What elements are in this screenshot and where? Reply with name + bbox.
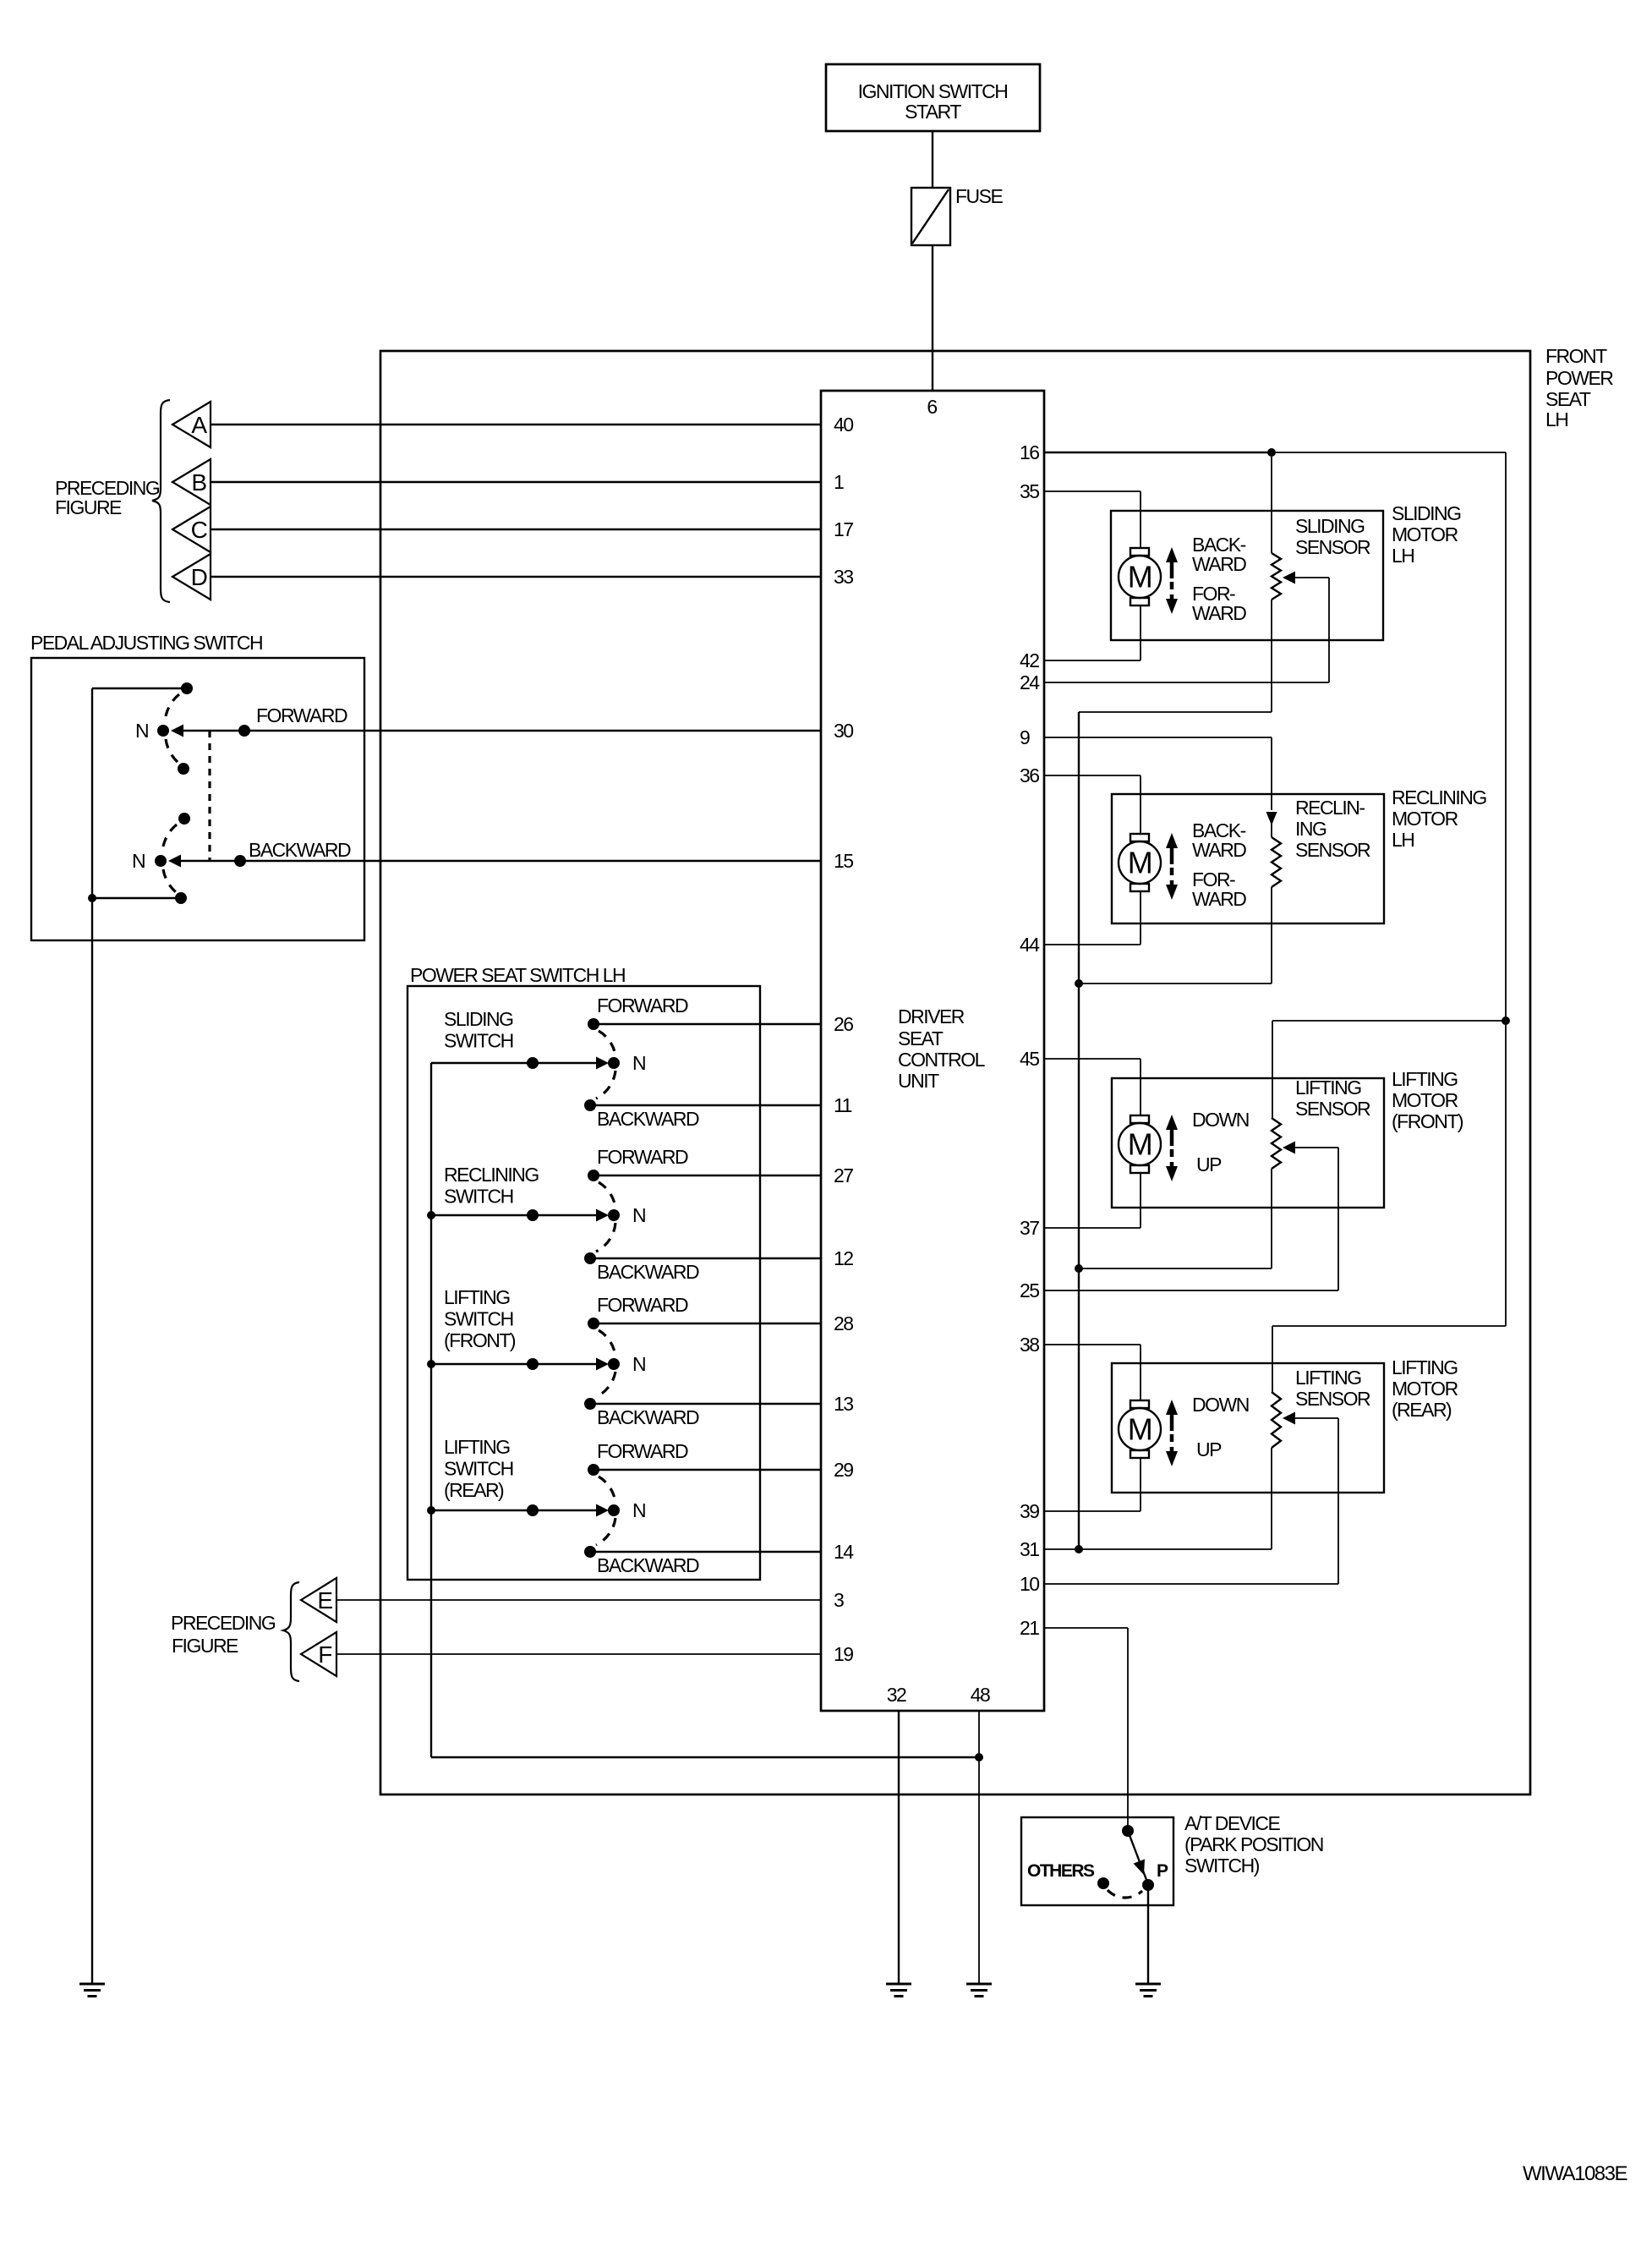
connector C triangle	[172, 507, 211, 552]
svg-text:PRECEDING: PRECEDING	[171, 1612, 276, 1634]
ground (pin 32)	[886, 1983, 911, 1986]
svg-text:WARD: WARD	[1192, 888, 1246, 910]
svg-text:FORWARD: FORWARD	[256, 704, 347, 726]
sensor resistor (reclining motor LH)	[1272, 837, 1281, 887]
svg-text:(REAR): (REAR)	[444, 1479, 504, 1501]
sensor resistor (lifting motor (front))	[1272, 1118, 1281, 1169]
svg-text:30: 30	[834, 720, 853, 742]
sensor ground bus	[1078, 712, 1080, 1549]
svg-text:P: P	[1157, 1861, 1168, 1881]
wire pin 48 to ground	[978, 1711, 980, 1984]
A/T device (park position switch) box	[1021, 1817, 1173, 1905]
svg-text:SWITCH: SWITCH	[444, 1458, 513, 1480]
svg-text:WIWA1083E: WIWA1083E	[1523, 2162, 1627, 2185]
svg-text:N: N	[132, 850, 145, 872]
svg-text:N: N	[632, 1204, 645, 1226]
pedal forward arrow	[171, 725, 183, 737]
svg-text:36: 36	[1020, 764, 1039, 786]
svg-text:A: A	[191, 412, 207, 438]
svg-text:START: START	[905, 101, 961, 123]
wire C to control unit	[211, 529, 821, 530]
reclining switch N contact	[427, 1211, 435, 1219]
ground (pin 48)	[966, 1983, 992, 1986]
connector A triangle	[172, 402, 211, 447]
svg-text:44: 44	[1020, 934, 1040, 956]
svg-text:11: 11	[834, 1094, 852, 1116]
svg-text:FORWARD: FORWARD	[597, 1440, 688, 1462]
svg-text:SENSOR: SENSOR	[1295, 1098, 1370, 1120]
svg-text:LH: LH	[1392, 829, 1414, 851]
svg-text:BACKWARD: BACKWARD	[249, 839, 351, 861]
svg-text:IGNITION SWITCH: IGNITION SWITCH	[858, 80, 1008, 102]
svg-text:31: 31	[1020, 1538, 1039, 1560]
direction arrows (sliding motor LH)	[1170, 562, 1174, 578]
wire fuse to pin 6	[932, 245, 933, 391]
svg-text:SWITCH: SWITCH	[444, 1308, 513, 1330]
svg-text:DOWN: DOWN	[1192, 1394, 1249, 1416]
svg-text:BACKWARD: BACKWARD	[597, 1406, 699, 1428]
sliding sensor stubs	[1271, 457, 1272, 553]
svg-text:37: 37	[1020, 1217, 1039, 1239]
svg-text:(FRONT): (FRONT)	[444, 1329, 516, 1351]
reclining motor LH box	[1112, 794, 1384, 923]
lifting front sensor wiper to pin 25	[1283, 1142, 1295, 1154]
svg-text:40: 40	[834, 414, 853, 436]
svg-text:LIFTING: LIFTING	[1392, 1356, 1458, 1378]
reclining switch backward contact and wire	[590, 1257, 821, 1259]
lift_f switch forward contact and wire	[594, 1323, 821, 1324]
fuse	[911, 188, 950, 245]
svg-text:39: 39	[1020, 1500, 1039, 1522]
wire pedal forward to pin 30	[180, 730, 821, 731]
connector B triangle	[172, 459, 211, 505]
motor M (lifting motor (rear))	[1130, 1400, 1149, 1408]
park switch OTHERS contact	[1097, 1877, 1109, 1889]
lifting motor (rear) box	[1112, 1363, 1384, 1493]
svg-text:FIGURE: FIGURE	[55, 496, 122, 518]
pedal adjusting switch box	[31, 658, 364, 940]
svg-text:29: 29	[834, 1459, 853, 1481]
svg-text:14: 14	[834, 1541, 854, 1563]
svg-text:UP: UP	[1196, 1438, 1222, 1460]
svg-text:9: 9	[1020, 726, 1030, 748]
svg-text:SLIDING: SLIDING	[444, 1008, 513, 1030]
junction supply at lifting front	[1502, 1016, 1510, 1025]
motor M (sliding motor LH)	[1130, 548, 1149, 556]
connector D triangle	[172, 554, 211, 600]
svg-text:26: 26	[834, 1013, 853, 1035]
motor M (reclining motor LH)	[1130, 834, 1149, 841]
park switch P contact	[1142, 1879, 1154, 1891]
svg-text:M: M	[1128, 1127, 1152, 1162]
svg-text:SLIDING: SLIDING	[1295, 515, 1365, 537]
lift_r switch backward contact and wire	[590, 1551, 821, 1553]
front power seat LH outer box	[380, 351, 1530, 1794]
svg-text:17: 17	[834, 518, 853, 540]
wire feed pin to reclining motor LH	[1044, 775, 1141, 776]
svg-text:SENSOR: SENSOR	[1295, 1388, 1370, 1410]
svg-text:FRONT: FRONT	[1545, 345, 1607, 367]
svg-text:SENSOR: SENSOR	[1295, 536, 1370, 558]
wire lifting motor (rear) return pin	[1140, 1458, 1141, 1511]
svg-text:SENSOR: SENSOR	[1295, 839, 1370, 861]
svg-text:38: 38	[1020, 1334, 1039, 1356]
pedal switch lower (backward) contacts	[178, 813, 190, 825]
svg-text:SWITCH: SWITCH	[444, 1030, 513, 1052]
svg-text:21: 21	[1020, 1617, 1039, 1639]
svg-text:LIFTING: LIFTING	[1392, 1068, 1458, 1090]
lift_r switch N contact	[427, 1506, 435, 1515]
svg-text:N: N	[632, 1353, 645, 1375]
svg-text:MOTOR: MOTOR	[1392, 1089, 1458, 1111]
reclining switch forward contact and wire	[594, 1175, 821, 1176]
svg-text:CONTROL: CONTROL	[898, 1049, 986, 1071]
ground (pedal adjusting switch)	[79, 1983, 105, 1986]
svg-text:SWITCH): SWITCH)	[1184, 1855, 1260, 1877]
pedal switch common wire	[91, 688, 93, 1984]
sliding switch forward contact and wire	[594, 1023, 821, 1025]
svg-text:RECLIN-: RECLIN-	[1295, 797, 1365, 819]
wire D to control unit	[211, 576, 821, 578]
svg-text:1: 1	[834, 471, 844, 493]
svg-text:DOWN: DOWN	[1192, 1109, 1249, 1131]
direction arrows (lifting motor (rear))	[1170, 1414, 1174, 1431]
junction bus / pin 31	[1075, 1545, 1083, 1553]
sensor resistor (sliding motor LH)	[1272, 553, 1281, 600]
pedal common junction	[88, 894, 96, 902]
wire F to pin 19	[336, 1653, 821, 1655]
svg-text:POWER: POWER	[1545, 367, 1613, 389]
lifting motor (front) box	[1112, 1078, 1384, 1208]
svg-text:WARD: WARD	[1192, 602, 1246, 624]
park switch arm	[1128, 1831, 1148, 1884]
svg-text:MOTOR: MOTOR	[1392, 523, 1458, 545]
svg-text:N: N	[632, 1499, 645, 1521]
svg-text:12: 12	[834, 1247, 853, 1269]
svg-text:48: 48	[971, 1684, 990, 1706]
svg-text:C: C	[191, 517, 208, 543]
connector F triangle	[301, 1632, 336, 1676]
svg-text:M: M	[1128, 560, 1152, 594]
svg-text:BACKWARD: BACKWARD	[597, 1554, 699, 1576]
svg-text:RECLINING: RECLINING	[444, 1164, 539, 1186]
park switch common contact	[1122, 1825, 1134, 1837]
power seat switch box	[408, 986, 760, 1580]
svg-text:F: F	[318, 1641, 331, 1668]
svg-text:M: M	[1128, 1412, 1152, 1447]
svg-text:6: 6	[927, 396, 937, 418]
svg-text:M: M	[1128, 846, 1152, 880]
svg-text:WARD: WARD	[1192, 553, 1246, 575]
svg-text:PEDAL ADJUSTING SWITCH: PEDAL ADJUSTING SWITCH	[30, 632, 262, 654]
svg-text:ING: ING	[1295, 818, 1327, 840]
wire E to pin 3	[336, 1599, 821, 1601]
wire pedal backward to pin 15	[178, 860, 821, 862]
svg-text:42: 42	[1020, 649, 1039, 671]
brace for E-F connectors	[283, 1582, 299, 1681]
wire ignition to fuse	[932, 131, 933, 188]
svg-text:45: 45	[1020, 1048, 1039, 1070]
svg-text:FORWARD: FORWARD	[597, 994, 688, 1016]
pedal backward arrow	[168, 855, 181, 868]
svg-text:24: 24	[1020, 671, 1040, 693]
direction arrows (reclining motor LH)	[1170, 847, 1174, 864]
svg-text:FORWARD: FORWARD	[597, 1294, 688, 1316]
svg-text:SEAT: SEAT	[898, 1027, 944, 1049]
svg-text:27: 27	[834, 1164, 853, 1186]
svg-text:35: 35	[1020, 480, 1039, 502]
svg-text:16: 16	[1020, 441, 1039, 463]
svg-text:DRIVER: DRIVER	[898, 1005, 965, 1027]
svg-text:OTHERS: OTHERS	[1027, 1861, 1095, 1881]
ground (A/T device)	[1135, 1983, 1161, 1986]
lifting rear sensor wiper to pin 10	[1283, 1412, 1295, 1425]
lifting rear sensor stubs	[1272, 1326, 1273, 1392]
motor M (lifting motor (front))	[1130, 1115, 1149, 1123]
wire pin 16 to sensors supply	[1044, 452, 1272, 453]
svg-text:LH: LH	[1392, 545, 1414, 567]
junction psw bus / pin48 line	[975, 1753, 983, 1762]
svg-text:FIGURE: FIGURE	[172, 1635, 238, 1657]
svg-text:BACKWARD: BACKWARD	[597, 1261, 699, 1283]
svg-text:N: N	[632, 1052, 645, 1074]
svg-text:B: B	[191, 469, 206, 496]
svg-text:(PARK POSITION: (PARK POSITION	[1184, 1833, 1323, 1855]
svg-text:RECLINING: RECLINING	[1392, 786, 1486, 808]
sensor resistor (lifting motor (rear))	[1272, 1392, 1281, 1448]
wire pin 31 sensor ground	[1044, 1548, 1272, 1550]
sliding motor LH box	[1111, 511, 1383, 640]
svg-text:MOTOR: MOTOR	[1392, 1378, 1458, 1400]
pedal interlock dashed link	[208, 731, 211, 861]
sliding switch backward contact and wire	[590, 1104, 821, 1106]
wire pin 9 to reclining sensor wiper	[1044, 737, 1272, 738]
wire pin 21 to park position switch	[1044, 1627, 1128, 1629]
svg-text:SWITCH: SWITCH	[444, 1186, 513, 1208]
lift_r switch forward contact and wire	[594, 1469, 821, 1471]
connector E triangle	[301, 1578, 336, 1622]
wire reclining motor LH return pin	[1140, 891, 1141, 945]
svg-text:(FRONT): (FRONT)	[1392, 1110, 1463, 1132]
svg-text:15: 15	[834, 850, 853, 872]
svg-text:SLIDING: SLIDING	[1392, 502, 1461, 524]
wire feed pin to sliding motor LH	[1044, 490, 1141, 492]
lifting front sensor stubs	[1272, 1021, 1273, 1118]
power seat switch common bus	[430, 1063, 432, 1757]
sliding sensor wiper to pin 24	[1283, 572, 1295, 584]
wire lifting motor (front) return pin	[1140, 1173, 1141, 1228]
driver seat control unit U1 box	[821, 391, 1044, 1711]
svg-text:LH: LH	[1545, 408, 1567, 430]
svg-text:WARD: WARD	[1192, 839, 1246, 861]
wire feed pin to lifting motor (front)	[1044, 1058, 1141, 1060]
svg-text:D: D	[191, 564, 207, 590]
pedal switch upper (forward) contacts	[181, 682, 193, 694]
svg-text:25: 25	[1020, 1279, 1039, 1301]
svg-text:28: 28	[834, 1312, 853, 1334]
svg-text:LIFTING: LIFTING	[1295, 1077, 1361, 1099]
svg-text:MOTOR: MOTOR	[1392, 808, 1458, 830]
svg-text:3: 3	[834, 1589, 844, 1611]
svg-text:LIFTING: LIFTING	[1295, 1367, 1361, 1389]
svg-text:A/T DEVICE: A/T DEVICE	[1184, 1812, 1281, 1834]
wire P contact to ground	[1147, 1885, 1149, 1984]
reclining sensor bottom stub	[1271, 887, 1272, 984]
svg-text:UNIT: UNIT	[898, 1070, 939, 1092]
lift_f switch backward contact and wire	[590, 1403, 821, 1405]
svg-text:LIFTING: LIFTING	[444, 1286, 510, 1308]
svg-text:FORWARD: FORWARD	[597, 1146, 688, 1168]
svg-text:32: 32	[887, 1684, 906, 1706]
wire sliding motor LH return pin	[1140, 605, 1141, 660]
svg-text:33: 33	[834, 566, 853, 588]
brace for A-D connectors	[152, 400, 170, 602]
junction bus / lifting front sensor	[1075, 1264, 1083, 1273]
direction arrows (lifting motor (front))	[1170, 1129, 1174, 1146]
sliding switch N contact	[431, 1062, 599, 1064]
svg-text:UP: UP	[1196, 1153, 1222, 1175]
wire feed pin to lifting motor (rear)	[1044, 1344, 1141, 1345]
ignition switch box	[826, 64, 1040, 131]
svg-text:SEAT: SEAT	[1545, 388, 1591, 410]
svg-text:(REAR): (REAR)	[1392, 1399, 1452, 1421]
svg-text:19: 19	[834, 1643, 853, 1665]
svg-text:E: E	[317, 1587, 332, 1614]
svg-text:10: 10	[1020, 1573, 1039, 1595]
wire pin 32 to ground	[898, 1711, 900, 1984]
svg-text:FUSE: FUSE	[955, 185, 1004, 207]
svg-text:13: 13	[834, 1393, 853, 1415]
park switch dashed arc	[1108, 1890, 1142, 1898]
svg-text:BACKWARD: BACKWARD	[597, 1108, 699, 1130]
svg-text:N: N	[135, 720, 148, 742]
wire A to control unit	[211, 424, 821, 425]
svg-text:POWER SEAT SWITCH LH: POWER SEAT SWITCH LH	[410, 964, 625, 986]
junction bus / reclining sensor	[1075, 979, 1083, 988]
svg-text:LIFTING: LIFTING	[444, 1436, 510, 1458]
lift_f switch N contact	[427, 1360, 435, 1368]
wire B to control unit	[211, 481, 821, 483]
